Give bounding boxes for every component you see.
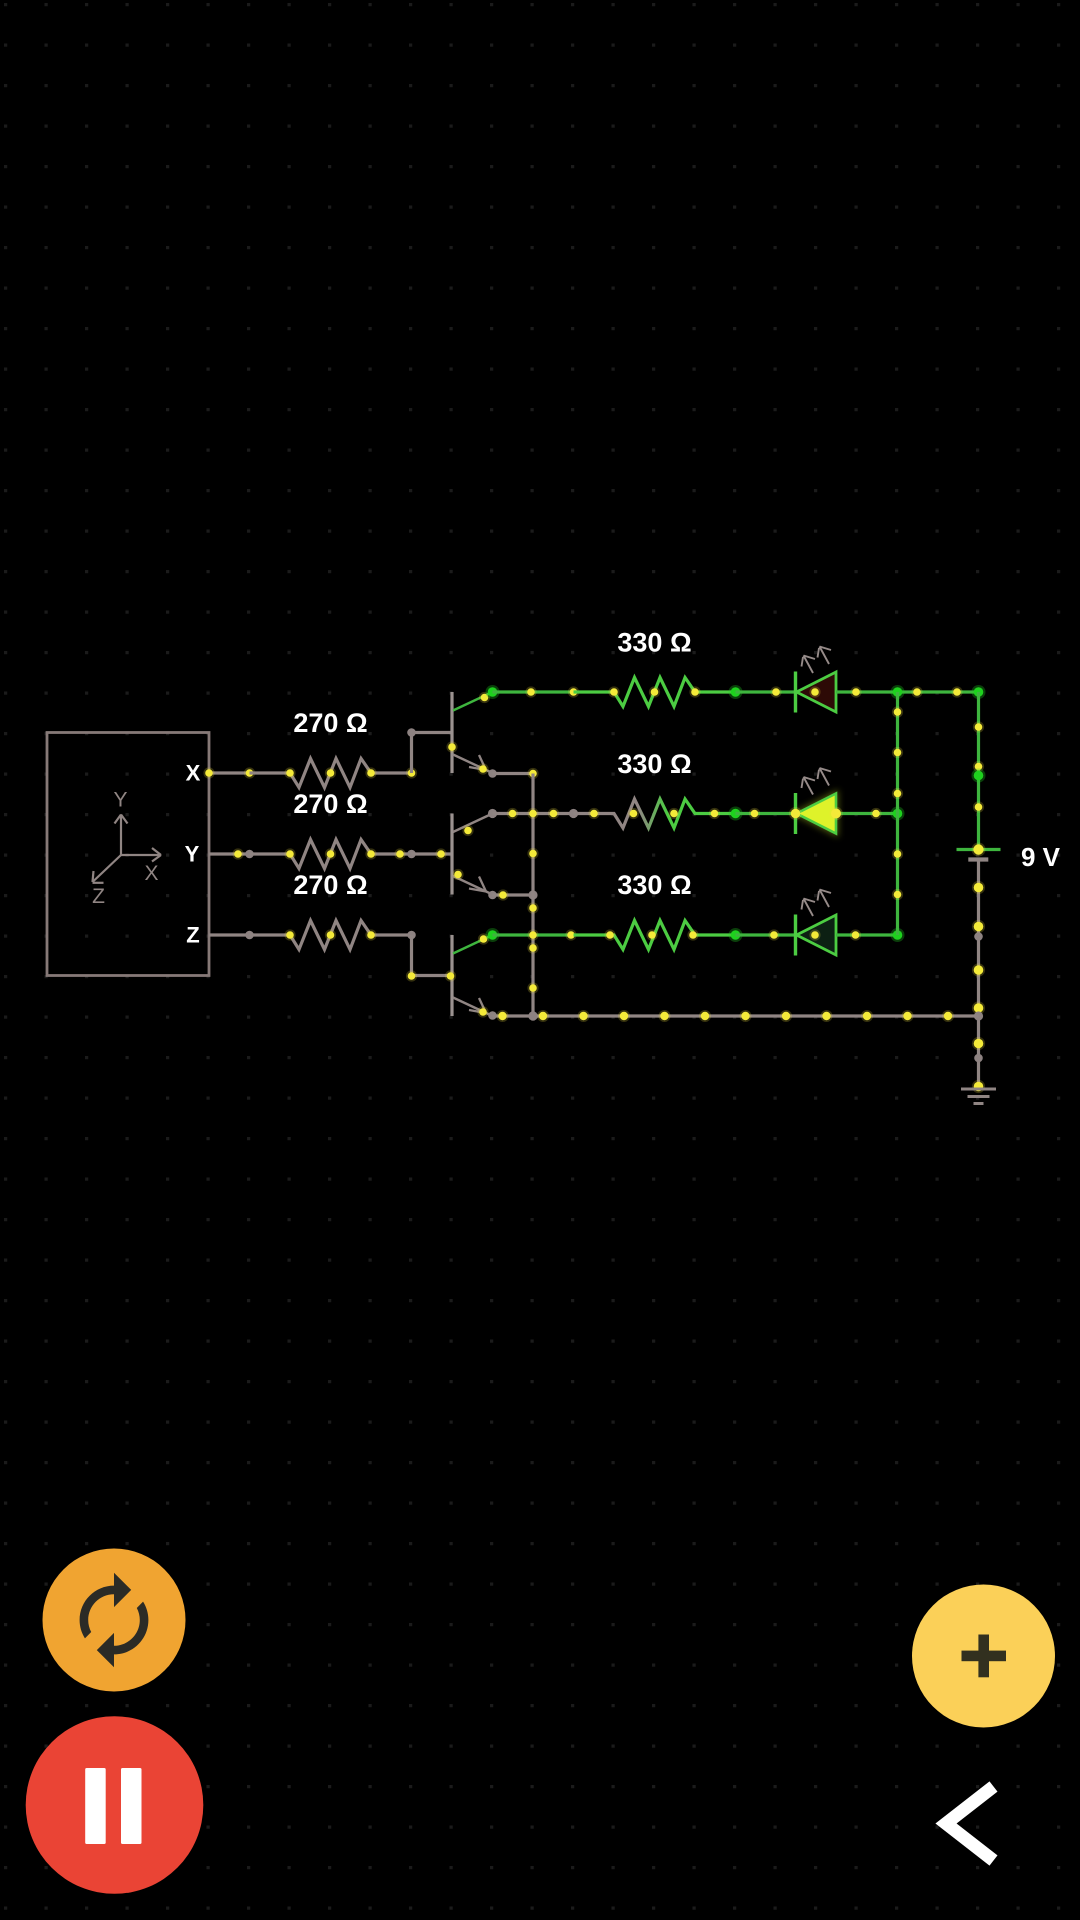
accelerometer U1 body bbox=[47, 733, 209, 976]
label R5 330 Ω bbox=[617, 749, 691, 779]
label 9 V bbox=[1021, 842, 1061, 872]
transistor Q3 bbox=[445, 933, 497, 1019]
wire Y pin bbox=[209, 848, 254, 859]
svg-text:X: X bbox=[186, 761, 201, 786]
label R3 270 Ω bbox=[293, 870, 367, 900]
wire Q1 emitter bbox=[493, 768, 539, 779]
pin label Z bbox=[186, 923, 199, 948]
wire D2 cathode bbox=[789, 807, 898, 821]
svg-text:Z: Z bbox=[186, 923, 199, 948]
wire emitter rail bbox=[527, 774, 538, 1021]
svg-text:270 Ω: 270 Ω bbox=[293, 789, 367, 819]
svg-text:330 Ω: 330 Ω bbox=[617, 870, 691, 900]
node top-right corner bbox=[972, 685, 986, 699]
wire D3 cathode bbox=[809, 929, 897, 940]
button back bbox=[946, 1787, 994, 1861]
resistor R4 330 bbox=[574, 678, 743, 707]
LED D1 bbox=[796, 647, 837, 713]
node bottom junction bbox=[891, 928, 905, 942]
button pause bbox=[26, 1716, 204, 1894]
pin label Y bbox=[185, 842, 200, 867]
wire battery positive bbox=[972, 692, 986, 850]
svg-text:X: X bbox=[144, 862, 158, 885]
wire X pin bbox=[203, 767, 255, 778]
wire D1 cathode bbox=[809, 686, 978, 697]
wire X base corner bbox=[407, 728, 452, 773]
svg-text:330 Ω: 330 Ω bbox=[617, 749, 691, 779]
wire D3 anode bbox=[736, 929, 796, 940]
resistor R3 270 bbox=[250, 921, 416, 950]
wire Y base bbox=[412, 848, 453, 859]
wire anode rail bbox=[892, 692, 903, 935]
wire Z base corner bbox=[406, 935, 452, 982]
svg-text:Y: Y bbox=[185, 842, 200, 867]
svg-text:Z: Z bbox=[92, 885, 105, 908]
LED D2 lit bbox=[796, 768, 837, 834]
node mid junction bbox=[891, 807, 905, 821]
svg-text:270 Ω: 270 Ω bbox=[293, 870, 367, 900]
wire battery negative bbox=[972, 860, 985, 1094]
wire ground bus bbox=[493, 1010, 979, 1022]
LED D3 bbox=[796, 890, 837, 956]
svg-text:270 Ω: 270 Ω bbox=[293, 708, 367, 738]
wire R2 row left bbox=[493, 808, 579, 819]
node Q2 collector bbox=[488, 809, 497, 818]
label R4 330 Ω bbox=[617, 628, 691, 658]
resistor R1 270 bbox=[250, 759, 418, 788]
resistor R6 330 bbox=[574, 921, 743, 950]
transistor Q2 bbox=[452, 814, 497, 900]
battery V1 9V bbox=[957, 843, 1001, 860]
wire R3 row left bbox=[493, 929, 577, 940]
axis glyph bbox=[92, 789, 161, 909]
label R1 270 Ω bbox=[293, 708, 367, 738]
node Q1 collector bbox=[486, 685, 500, 699]
label R6 330 Ω bbox=[617, 870, 691, 900]
resistor R2 270 bbox=[250, 840, 416, 869]
transistor Q1 bbox=[446, 692, 496, 778]
button add component bbox=[912, 1585, 1055, 1728]
wire R1 row left bbox=[493, 686, 580, 697]
label R2 270 Ω bbox=[293, 789, 367, 819]
button reload bbox=[43, 1549, 186, 1692]
wire D2 anode bbox=[736, 808, 796, 819]
svg-text:9 V: 9 V bbox=[1021, 842, 1061, 872]
wire Q2 emitter bbox=[493, 889, 538, 900]
wire Z pin bbox=[209, 931, 254, 940]
resistor R5 330 bbox=[574, 799, 743, 828]
wire D1 anode bbox=[736, 686, 796, 697]
svg-text:330 Ω: 330 Ω bbox=[617, 628, 691, 658]
node Q3 collector bbox=[486, 928, 500, 942]
node top junction bbox=[891, 685, 905, 699]
ground bbox=[961, 1089, 996, 1104]
svg-text:Y: Y bbox=[113, 789, 127, 812]
pin label X bbox=[186, 761, 201, 786]
